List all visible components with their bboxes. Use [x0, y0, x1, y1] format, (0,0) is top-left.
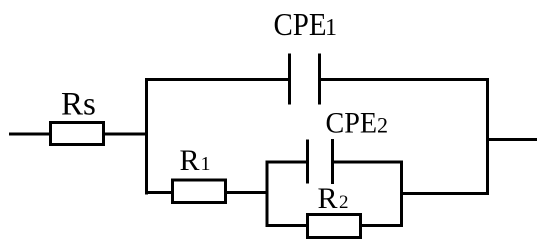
svg-text:CPE: CPE — [274, 6, 327, 42]
wire output right — [488, 138, 538, 141]
svg-text:1: 1 — [325, 15, 337, 41]
wire R1 to inner block — [226, 191, 269, 194]
wire top rail right — [320, 78, 490, 81]
wire bottom branch from node — [145, 191, 173, 194]
svg-text:2: 2 — [339, 192, 349, 213]
wire inner left vertical — [266, 161, 269, 228]
wire inner top rail right — [333, 161, 404, 164]
resistor R1 — [173, 180, 226, 203]
svg-text:CPE: CPE — [326, 107, 378, 140]
wire right vertical branch — [486, 78, 489, 195]
wire inner bottom rail left — [266, 224, 308, 227]
capacitor CPE1 — [290, 54, 320, 105]
svg-text:Rs: Rs — [61, 87, 96, 123]
resistor R2 — [308, 215, 361, 238]
svg-text:R: R — [180, 144, 200, 177]
svg-text:2: 2 — [377, 113, 388, 138]
wire inner block to right vertical — [402, 192, 488, 195]
wire top rail left — [145, 78, 290, 81]
capacitor CPE2 — [308, 139, 333, 184]
wire inner bottom rail right — [361, 224, 404, 227]
wire input left — [9, 133, 50, 136]
svg-text:1: 1 — [201, 153, 211, 175]
wire inner top rail left — [266, 161, 308, 164]
resistor Rs — [51, 123, 104, 145]
svg-text:R: R — [318, 182, 338, 215]
wire inner right vertical — [400, 161, 403, 228]
wire left vertical branch — [145, 78, 148, 195]
wire Rs to node — [103, 133, 148, 136]
